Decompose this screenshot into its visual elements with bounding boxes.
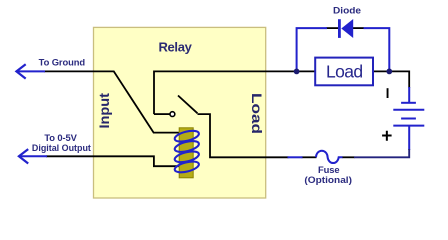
svg-text:To Ground: To Ground <box>39 57 86 68</box>
svg-text:Input: Input <box>97 93 112 129</box>
svg-text:Relay: Relay <box>159 40 193 55</box>
svg-text:Load: Load <box>249 93 265 134</box>
svg-text:Diode: Diode <box>333 5 361 16</box>
svg-text:(Optional): (Optional) <box>304 174 352 185</box>
svg-text:Digital Output: Digital Output <box>32 142 91 153</box>
svg-text:Load: Load <box>326 61 363 81</box>
